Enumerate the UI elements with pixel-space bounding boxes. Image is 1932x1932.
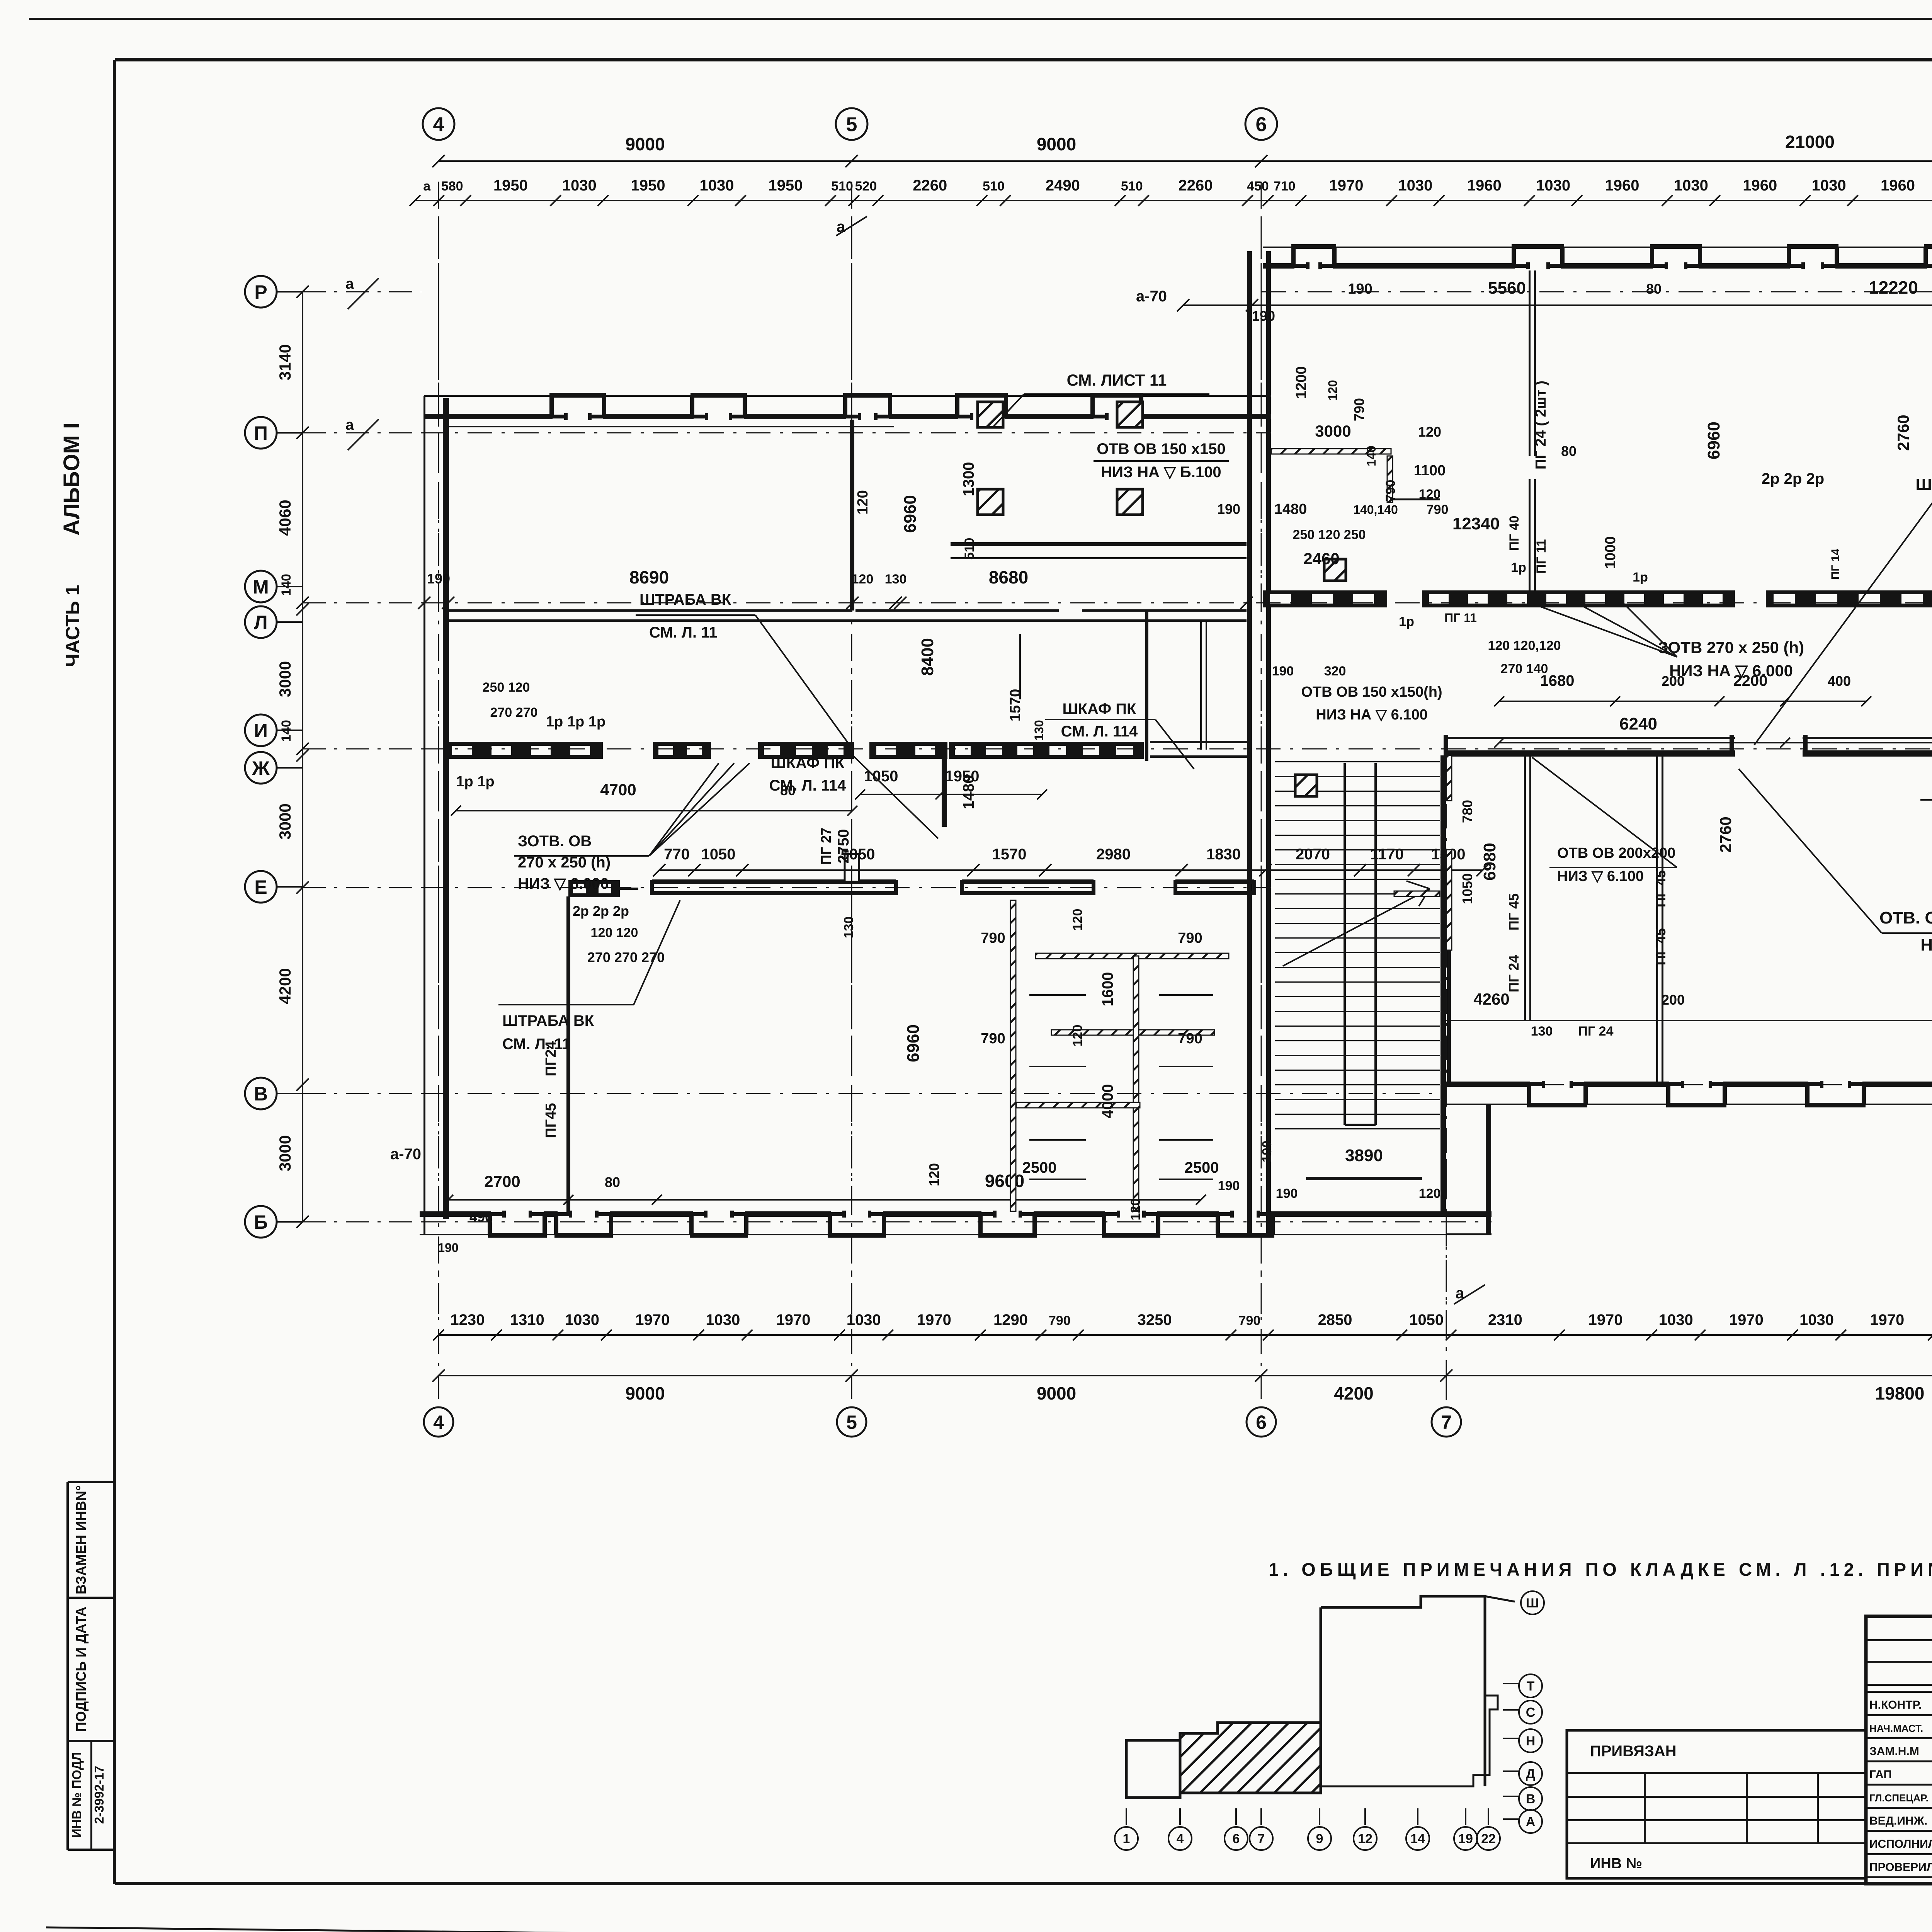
svg-text:19: 19 xyxy=(1458,1832,1473,1846)
svg-text:130: 130 xyxy=(1032,720,1046,740)
svg-text:1970: 1970 xyxy=(1870,1311,1904,1328)
svg-text:1970: 1970 xyxy=(635,1311,670,1328)
svg-text:1830: 1830 xyxy=(1206,846,1241,863)
svg-text:2260: 2260 xyxy=(1179,177,1213,194)
svg-text:4: 4 xyxy=(433,114,444,136)
svg-text:2260: 2260 xyxy=(913,177,947,194)
svg-text:3000: 3000 xyxy=(276,1135,294,1171)
svg-text:200: 200 xyxy=(1662,992,1685,1008)
svg-text:2р 2р 2р: 2р 2р 2р xyxy=(573,903,629,919)
svg-text:А: А xyxy=(1526,1815,1536,1829)
svg-text:4700: 4700 xyxy=(600,781,636,799)
svg-text:НИЗ НА ▽ 6.100: НИЗ НА ▽ 6.100 xyxy=(1316,707,1427,723)
svg-text:1950: 1950 xyxy=(493,177,528,194)
svg-text:190: 190 xyxy=(1218,1179,1240,1193)
svg-text:а: а xyxy=(1456,1285,1464,1302)
svg-text:4: 4 xyxy=(433,1412,444,1433)
svg-text:1200: 1200 xyxy=(1293,366,1310,399)
svg-text:4060: 4060 xyxy=(276,500,294,536)
svg-text:2р 2р 2р: 2р 2р 2р xyxy=(1762,470,1824,487)
svg-text:ПГ 45: ПГ 45 xyxy=(1506,893,1522,930)
svg-text:а: а xyxy=(423,179,431,194)
svg-text:2750: 2750 xyxy=(835,829,852,864)
svg-text:6: 6 xyxy=(1256,114,1267,136)
svg-text:ВЗАМЕН ИНВN°: ВЗАМЕН ИНВN° xyxy=(73,1485,89,1594)
svg-text:2850: 2850 xyxy=(1318,1311,1352,1328)
svg-text:1960: 1960 xyxy=(1881,177,1915,194)
svg-text:8690: 8690 xyxy=(629,567,669,587)
svg-text:9: 9 xyxy=(1316,1832,1323,1846)
svg-text:120: 120 xyxy=(852,572,874,587)
svg-text:1. ОБЩИЕ ПРИМЕЧАНИЯ ПО КЛАДКЕ: 1. ОБЩИЕ ПРИМЕЧАНИЯ ПО КЛАДКЕ СМ. Л .12.… xyxy=(1269,1559,1932,1580)
svg-text:9000: 9000 xyxy=(1037,134,1076,154)
svg-text:ПГ24: ПГ24 xyxy=(543,1041,559,1076)
svg-text:8400: 8400 xyxy=(918,638,937,676)
svg-text:510: 510 xyxy=(831,179,853,194)
svg-text:1970: 1970 xyxy=(1588,1311,1623,1328)
svg-text:6980: 6980 xyxy=(1480,843,1499,881)
svg-text:ШКАФ ПК: ШКАФ ПК xyxy=(1063,701,1137,718)
svg-text:250 120: 250 120 xyxy=(483,680,530,695)
svg-text:270 270: 270 270 xyxy=(490,705,538,720)
svg-text:710: 710 xyxy=(1274,179,1296,194)
svg-text:1000: 1000 xyxy=(1602,536,1619,569)
svg-text:1290: 1290 xyxy=(993,1311,1028,1328)
svg-text:ПГ 40: ПГ 40 xyxy=(1507,516,1522,551)
svg-text:1030: 1030 xyxy=(1812,177,1846,194)
svg-text:2-3992-17: 2-3992-17 xyxy=(92,1766,106,1824)
svg-text:1480: 1480 xyxy=(960,775,977,810)
svg-text:а: а xyxy=(837,218,845,235)
svg-text:1050: 1050 xyxy=(1409,1311,1444,1328)
svg-text:7: 7 xyxy=(1441,1412,1452,1433)
svg-text:ЗОТВ 270 х 250 (h): ЗОТВ 270 х 250 (h) xyxy=(1658,638,1804,656)
svg-text:790: 790 xyxy=(1049,1313,1071,1328)
svg-text:780: 780 xyxy=(1459,800,1475,823)
svg-text:8680: 8680 xyxy=(989,567,1028,587)
svg-text:ОТВ ОВ 150 х150: ОТВ ОВ 150 х150 xyxy=(1097,440,1226,457)
svg-text:9600: 9600 xyxy=(985,1171,1024,1191)
svg-text:1570: 1570 xyxy=(992,846,1027,863)
svg-text:790: 790 xyxy=(1178,930,1202,946)
svg-text:Н: Н xyxy=(1526,1734,1536,1748)
svg-text:НИЗ НА ▽ Б.100: НИЗ НА ▽ Б.100 xyxy=(1101,464,1221,481)
svg-text:Д: Д xyxy=(1526,1767,1535,1781)
svg-text:14: 14 xyxy=(1410,1832,1425,1846)
svg-text:1030: 1030 xyxy=(1536,177,1570,194)
svg-text:510: 510 xyxy=(983,179,1005,194)
svg-text:2070: 2070 xyxy=(1296,846,1330,863)
svg-text:2460: 2460 xyxy=(1303,549,1339,568)
svg-text:2490: 2490 xyxy=(1046,177,1080,194)
svg-text:ПГ 11: ПГ 11 xyxy=(1534,539,1549,573)
svg-text:ПРОВЕРИЛ: ПРОВЕРИЛ xyxy=(1869,1861,1932,1874)
svg-text:1050: 1050 xyxy=(701,846,736,863)
svg-text:С: С xyxy=(1526,1705,1536,1720)
svg-text:ПОДПИСЬ И ДАТА: ПОДПИСЬ И ДАТА xyxy=(73,1607,89,1732)
svg-text:1300: 1300 xyxy=(960,462,977,497)
svg-text:580: 580 xyxy=(441,179,463,194)
svg-text:1030: 1030 xyxy=(565,1311,599,1328)
svg-text:80: 80 xyxy=(1646,281,1662,297)
svg-text:510: 510 xyxy=(962,538,977,560)
svg-text:120: 120 xyxy=(1419,487,1441,502)
svg-text:ПГ 24: ПГ 24 xyxy=(1578,1024,1614,1039)
svg-text:4200: 4200 xyxy=(276,968,294,1004)
svg-text:3250: 3250 xyxy=(1138,1311,1172,1328)
svg-text:4260: 4260 xyxy=(1473,990,1509,1008)
svg-text:1960: 1960 xyxy=(1467,177,1502,194)
svg-text:130: 130 xyxy=(842,917,856,939)
svg-text:2500: 2500 xyxy=(1185,1159,1219,1176)
svg-text:1480: 1480 xyxy=(1274,501,1307,517)
svg-text:1030: 1030 xyxy=(1674,177,1708,194)
svg-text:СМ. Л. 11: СМ. Л. 11 xyxy=(649,624,717,641)
svg-text:СМ. ЛИСТ 11: СМ. ЛИСТ 11 xyxy=(1067,371,1167,389)
svg-text:а: а xyxy=(345,417,354,433)
svg-text:1р: 1р xyxy=(1399,614,1414,629)
svg-text:1030: 1030 xyxy=(700,177,734,194)
svg-text:80: 80 xyxy=(605,1174,620,1190)
svg-text:ШТРАБА ВК СМ.Л.12: ШТРАБА ВК СМ.Л.12 xyxy=(1915,475,1932,493)
svg-text:ПГ 24: ПГ 24 xyxy=(1506,955,1522,992)
svg-text:12: 12 xyxy=(1358,1832,1372,1846)
svg-text:ОТВ ОВ 150 х150(h): ОТВ ОВ 150 х150(h) xyxy=(1301,684,1442,700)
svg-text:22: 22 xyxy=(1481,1832,1496,1846)
svg-text:а-70: а-70 xyxy=(390,1146,421,1163)
svg-text:СМ. Л. 11: СМ. Л. 11 xyxy=(502,1036,570,1053)
svg-text:3000: 3000 xyxy=(276,661,294,697)
svg-text:6240: 6240 xyxy=(1619,714,1657,733)
svg-text:4200: 4200 xyxy=(1334,1383,1373,1403)
svg-text:И: И xyxy=(254,720,268,742)
svg-text:1230: 1230 xyxy=(450,1311,485,1328)
svg-text:120 120: 120 120 xyxy=(591,925,638,940)
svg-text:1970: 1970 xyxy=(1729,1311,1764,1328)
svg-text:790: 790 xyxy=(1383,480,1398,502)
svg-text:190: 190 xyxy=(1276,1186,1298,1201)
svg-text:ШТРАБА ВК: ШТРАБА ВК xyxy=(502,1012,594,1029)
svg-text:520: 520 xyxy=(855,179,877,194)
svg-text:120: 120 xyxy=(1419,1186,1441,1201)
svg-text:190: 190 xyxy=(1348,281,1372,297)
svg-text:21000: 21000 xyxy=(1785,132,1835,152)
svg-text:5: 5 xyxy=(846,114,857,136)
svg-text:250 120 250: 250 120 250 xyxy=(1293,527,1366,542)
svg-text:НИЗ ▽ 6.000: НИЗ ▽ 6.000 xyxy=(518,875,609,892)
svg-text:1950: 1950 xyxy=(768,177,803,194)
svg-text:ПГ45: ПГ45 xyxy=(543,1103,559,1138)
svg-text:ИСПОЛНИЛ: ИСПОЛНИЛ xyxy=(1869,1838,1932,1850)
svg-text:6960: 6960 xyxy=(1704,422,1723,459)
svg-text:790: 790 xyxy=(981,930,1005,946)
svg-text:1960: 1960 xyxy=(1605,177,1639,194)
svg-text:Ж: Ж xyxy=(252,757,270,779)
svg-text:790: 790 xyxy=(1239,1313,1261,1328)
svg-text:4: 4 xyxy=(1177,1832,1184,1846)
svg-text:9000: 9000 xyxy=(1037,1383,1076,1403)
svg-text:120 120,120: 120 120,120 xyxy=(1488,638,1561,653)
svg-text:ИНВ №: ИНВ № xyxy=(1590,1855,1642,1872)
svg-text:ПГ 14: ПГ 14 xyxy=(1829,549,1842,580)
svg-text:а: а xyxy=(345,276,354,292)
svg-text:130: 130 xyxy=(885,572,907,587)
svg-text:190: 190 xyxy=(1217,501,1240,517)
svg-text:НИЗ ▽ 5.900: НИЗ ▽ 5.900 xyxy=(1920,935,1932,954)
svg-text:3890: 3890 xyxy=(1345,1146,1383,1165)
svg-text:Е: Е xyxy=(254,876,267,898)
svg-text:3000: 3000 xyxy=(276,803,294,839)
svg-text:320: 320 xyxy=(1324,664,1346,679)
svg-text:ШТРАБА ВК: ШТРАБА ВК xyxy=(639,591,731,608)
svg-text:6: 6 xyxy=(1233,1832,1240,1846)
svg-text:6960: 6960 xyxy=(904,1024,923,1062)
svg-text:6960: 6960 xyxy=(901,495,920,533)
svg-text:770: 770 xyxy=(664,846,690,863)
svg-text:В: В xyxy=(1526,1792,1536,1806)
svg-text:120: 120 xyxy=(855,490,871,514)
svg-text:120: 120 xyxy=(1070,909,1085,931)
svg-text:2760: 2760 xyxy=(1716,816,1735,852)
svg-text:120: 120 xyxy=(926,1163,942,1186)
svg-text:1: 1 xyxy=(1123,1832,1130,1846)
svg-text:В: В xyxy=(254,1083,268,1105)
svg-text:Б: Б xyxy=(254,1211,268,1233)
svg-text:ВЕД.ИНЖ.: ВЕД.ИНЖ. xyxy=(1869,1815,1927,1827)
svg-text:2700: 2700 xyxy=(484,1172,520,1190)
svg-text:190: 190 xyxy=(427,571,450,587)
svg-text:120: 120 xyxy=(1128,1199,1143,1221)
svg-text:1030: 1030 xyxy=(1398,177,1432,194)
svg-text:4000: 4000 xyxy=(1099,1084,1116,1119)
svg-text:790: 790 xyxy=(981,1031,1005,1047)
svg-text:5: 5 xyxy=(846,1412,857,1433)
svg-text:ИНВ № ПОДЛ: ИНВ № ПОДЛ xyxy=(70,1752,84,1838)
svg-text:5560: 5560 xyxy=(1488,279,1526,298)
svg-text:190: 190 xyxy=(1272,664,1294,679)
svg-text:ПГ 11: ПГ 11 xyxy=(1444,611,1477,625)
svg-text:1030: 1030 xyxy=(1799,1311,1834,1328)
svg-text:1р: 1р xyxy=(1511,560,1526,575)
svg-text:7: 7 xyxy=(1258,1832,1265,1846)
svg-text:Р: Р xyxy=(254,281,267,303)
svg-text:а-70: а-70 xyxy=(1136,288,1167,305)
svg-text:120: 120 xyxy=(1326,380,1340,400)
svg-text:1030: 1030 xyxy=(562,177,597,194)
svg-text:140,140: 140,140 xyxy=(1353,503,1398,517)
svg-text:3000: 3000 xyxy=(1315,422,1351,440)
svg-text:ПГ 45: ПГ 45 xyxy=(1653,928,1668,965)
svg-text:АЛЬБОМ I: АЛЬБОМ I xyxy=(59,423,84,536)
svg-text:ПРИВЯЗАН: ПРИВЯЗАН xyxy=(1590,1743,1677,1760)
svg-text:790: 790 xyxy=(1178,1031,1202,1047)
svg-text:510: 510 xyxy=(1121,179,1143,194)
svg-text:1310: 1310 xyxy=(510,1311,544,1328)
svg-text:М: М xyxy=(253,576,269,598)
svg-text:1970: 1970 xyxy=(917,1311,951,1328)
svg-text:120: 120 xyxy=(1070,1025,1085,1047)
svg-text:12340: 12340 xyxy=(1452,514,1500,533)
svg-text:2310: 2310 xyxy=(1488,1311,1522,1328)
svg-text:1970: 1970 xyxy=(776,1311,811,1328)
svg-text:ЧАСТЬ 1: ЧАСТЬ 1 xyxy=(62,585,83,667)
svg-text:ПГ 27: ПГ 27 xyxy=(818,828,834,865)
svg-text:Т: Т xyxy=(1527,1679,1535,1694)
svg-text:200: 200 xyxy=(1662,673,1685,689)
svg-text:1р 1р 1р: 1р 1р 1р xyxy=(546,714,605,730)
svg-text:790: 790 xyxy=(1351,398,1367,421)
svg-text:ПГ 24 ( 2шт ): ПГ 24 ( 2шт ) xyxy=(1533,381,1549,469)
svg-text:130: 130 xyxy=(1531,1024,1553,1039)
svg-text:1950: 1950 xyxy=(631,177,665,194)
svg-text:1р: 1р xyxy=(1633,570,1648,585)
svg-text:Ш: Ш xyxy=(1526,1596,1539,1611)
svg-text:1030: 1030 xyxy=(1659,1311,1693,1328)
svg-text:СМ. Л. 114: СМ. Л. 114 xyxy=(769,777,846,794)
svg-text:190: 190 xyxy=(438,1241,458,1255)
svg-text:1р 1р: 1р 1р xyxy=(456,774,494,790)
svg-text:СМ. Л. 114: СМ. Л. 114 xyxy=(1061,723,1138,740)
svg-text:1680: 1680 xyxy=(1540,672,1575,689)
svg-text:400: 400 xyxy=(1828,673,1851,689)
svg-text:1960: 1960 xyxy=(1743,177,1777,194)
svg-text:2500: 2500 xyxy=(1022,1159,1057,1176)
svg-text:НАЧ.МАСТ.: НАЧ.МАСТ. xyxy=(1869,1723,1923,1734)
svg-text:1100: 1100 xyxy=(1414,463,1446,479)
svg-text:ПГ 45: ПГ 45 xyxy=(1653,870,1668,907)
svg-text:1600: 1600 xyxy=(1099,972,1116,1007)
svg-text:3140: 3140 xyxy=(276,344,294,380)
svg-text:450: 450 xyxy=(1247,179,1269,194)
svg-text:140: 140 xyxy=(1364,446,1378,466)
svg-text:12220: 12220 xyxy=(1869,277,1918,298)
svg-text:НИЗ НА ▽ 6.000: НИЗ НА ▽ 6.000 xyxy=(1669,662,1793,680)
svg-text:ЗАМ.Н.М: ЗАМ.Н.М xyxy=(1869,1745,1919,1758)
svg-text:2760: 2760 xyxy=(1894,415,1912,451)
svg-text:9000: 9000 xyxy=(625,134,665,154)
svg-text:1030: 1030 xyxy=(706,1311,740,1328)
svg-text:19800: 19800 xyxy=(1875,1383,1925,1403)
svg-text:П: П xyxy=(254,422,268,444)
svg-text:190: 190 xyxy=(1260,1141,1274,1163)
svg-text:ОТВ. ОВ. 400 х 385 (h): ОТВ. ОВ. 400 х 385 (h) xyxy=(1879,908,1932,927)
svg-text:ГЛ.СПЕЦАР.: ГЛ.СПЕЦАР. xyxy=(1869,1792,1929,1804)
svg-text:6: 6 xyxy=(1256,1412,1267,1433)
svg-text:Н.КОНТР.: Н.КОНТР. xyxy=(1869,1699,1922,1711)
svg-text:1050: 1050 xyxy=(1459,873,1475,904)
svg-text:120: 120 xyxy=(1418,424,1441,440)
svg-text:ГАП: ГАП xyxy=(1869,1768,1892,1781)
svg-text:1570: 1570 xyxy=(1007,689,1024,722)
svg-text:190: 190 xyxy=(1252,308,1275,324)
svg-text:140: 140 xyxy=(279,574,294,596)
svg-text:790: 790 xyxy=(1427,502,1449,517)
svg-text:9000: 9000 xyxy=(625,1383,665,1403)
svg-text:2980: 2980 xyxy=(1096,846,1131,863)
svg-text:80: 80 xyxy=(1561,443,1577,459)
svg-text:2200: 2200 xyxy=(1733,672,1768,689)
svg-text:НИЗ ▽ 6.100: НИЗ ▽ 6.100 xyxy=(1557,868,1644,884)
svg-text:1970: 1970 xyxy=(1329,177,1364,194)
svg-text:ЗОТВ. ОВ: ЗОТВ. ОВ xyxy=(518,833,592,850)
svg-text:Л: Л xyxy=(254,612,267,633)
